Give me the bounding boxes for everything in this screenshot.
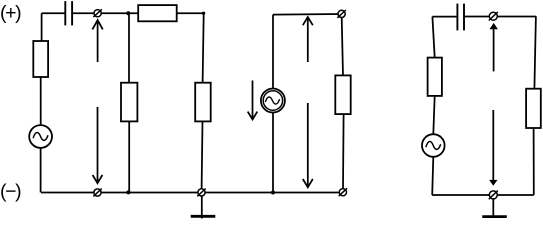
svg-text:(−): (−) [0, 181, 21, 203]
svg-text:(+): (+) [0, 2, 21, 24]
